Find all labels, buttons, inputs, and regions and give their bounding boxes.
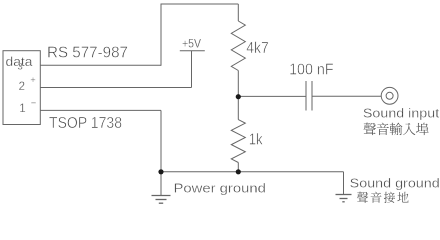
wire sound ground drop	[343, 172, 345, 194]
wire 4k7 bottom lead	[237, 71, 239, 97]
svg-text:+5V: +5V	[182, 38, 201, 50]
svg-text:Power ground: Power ground	[174, 181, 266, 196]
svg-text:TSOP 1738: TSOP 1738	[49, 115, 122, 132]
node ground junction left	[158, 169, 163, 174]
wire 1k top lead	[237, 97, 239, 120]
node divider junction	[236, 94, 241, 99]
label CJK sound input port	[363, 123, 428, 136]
wire junction to capacitor	[238, 95, 306, 97]
wire +5V stem	[191, 51, 193, 88]
svg-text:2: 2	[19, 81, 25, 93]
label CJK sound ground	[357, 192, 409, 203]
wire 4k7 top lead	[237, 4, 239, 21]
resistor R2 1k	[231, 120, 245, 163]
svg-text:Sound ground: Sound ground	[350, 176, 440, 191]
wire 1k bottom lead	[237, 163, 239, 172]
resistor R1 4k7	[231, 21, 245, 71]
svg-text:+: +	[30, 75, 36, 86]
svg-text:RS 577-987: RS 577-987	[47, 45, 128, 62]
ground sound GND symbol	[336, 195, 352, 202]
svg-text:1k: 1k	[249, 132, 264, 149]
wire pin1 horizontal	[40, 109, 161, 111]
wire bottom ground rail	[161, 171, 344, 173]
wire left vertical up	[160, 4, 162, 66]
node ground junction right	[236, 169, 241, 174]
svg-text:100 nF: 100 nF	[289, 62, 334, 79]
wire data pin to corner	[40, 64, 161, 66]
capacitor C1 plates	[306, 81, 312, 111]
wire pin2 to +5V	[40, 87, 191, 89]
svg-text:−: −	[31, 98, 37, 109]
svg-text:3: 3	[18, 62, 23, 73]
connector J1 sound input jack	[381, 87, 398, 104]
wire power ground stem	[160, 172, 162, 195]
svg-text:Sound input: Sound input	[363, 105, 440, 120]
wire top horizontal	[161, 3, 239, 5]
svg-text:4k7: 4k7	[246, 40, 269, 57]
power +5V bar	[180, 50, 205, 52]
ground power GND symbol	[152, 196, 171, 204]
IC body U1 TSOP1738	[3, 51, 40, 125]
svg-text:1: 1	[19, 103, 25, 115]
wire pin1 vertical down	[160, 110, 162, 171]
wire capacitor to jack	[312, 95, 381, 97]
